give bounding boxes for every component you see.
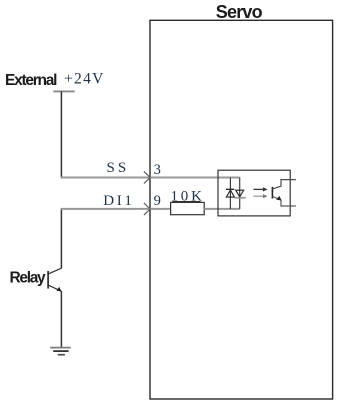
arrowhead into pin 9 [144,203,150,215]
arrowhead into pin 3 [144,171,150,183]
svg-text:9: 9 [154,193,161,209]
power rail +24V bar [53,90,74,92]
ground symbol [50,348,71,355]
svg-text:External: External [5,72,57,89]
pin 3 label [154,162,161,178]
svg-text:10K: 10K [171,189,205,205]
servo enclosure box [150,20,333,399]
label +24V [64,71,105,88]
light arrow lower [254,194,268,198]
wire SS horizontal to servo pin 3 [61,177,150,179]
label DI1 [103,193,134,209]
svg-text:Servo: Servo [216,2,263,22]
resistor R 10K body [171,202,205,214]
opto input diode conductor right [239,178,241,210]
svg-text:DI1: DI1 [103,193,134,209]
transistor Q1 base bar [47,271,49,289]
LED diode D1 (up) [226,189,234,197]
phototransistor emitter [273,196,296,206]
svg-text:SS: SS [107,160,130,176]
pin 9 label [154,193,161,209]
svg-text:Relay: Relay [10,270,47,287]
label Relay [10,270,47,287]
light arrow upper [254,187,268,191]
label 10K [171,189,205,205]
wire from +24V down to SS corner [60,91,62,177]
label SS [107,160,130,176]
phototransistor collector [273,180,296,189]
svg-text:3: 3 [154,162,161,178]
label External [5,72,57,89]
wire DI1 horizontal to resistor [61,208,171,210]
node DI1 corner [60,208,62,268]
transistor Q1 emitter with arrow [48,285,61,291]
phototransistor base bar [271,187,273,199]
label Servo [216,2,263,22]
LED diode D2 (down) [235,190,246,198]
opto input diode conductor left [229,178,231,210]
optocoupler U1 box [218,170,290,216]
wire emitter down to ground [60,291,62,348]
wire resistor to optocoupler [204,208,240,210]
wire SS inside servo box to optocoupler [150,177,240,179]
svg-text:+24V: +24V [64,71,105,88]
transistor Q1 collector [48,268,61,274]
